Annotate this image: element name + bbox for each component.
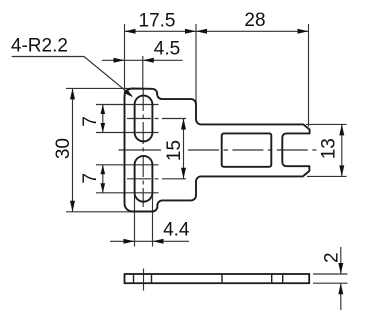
svg-text:28: 28 bbox=[244, 10, 265, 31]
svg-text:4.4: 4.4 bbox=[163, 220, 190, 241]
svg-text:4.5: 4.5 bbox=[154, 39, 180, 60]
svg-text:30: 30 bbox=[53, 138, 74, 159]
svg-text:7: 7 bbox=[80, 173, 101, 184]
svg-text:2: 2 bbox=[321, 252, 342, 263]
svg-text:15: 15 bbox=[164, 140, 185, 161]
svg-text:17.5: 17.5 bbox=[139, 11, 176, 32]
svg-text:7: 7 bbox=[80, 116, 101, 127]
svg-text:4-R2.2: 4-R2.2 bbox=[11, 35, 68, 56]
svg-text:13: 13 bbox=[319, 138, 340, 159]
